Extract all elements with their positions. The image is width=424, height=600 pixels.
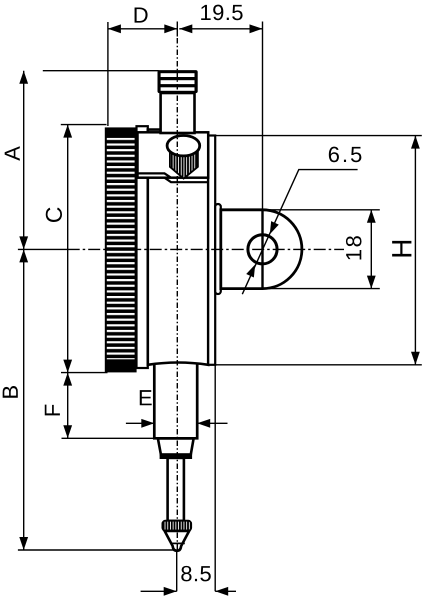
contact ball seam — [171, 542, 185, 544]
clamp collar — [138, 132, 209, 177]
dim A line — [23, 71, 25, 250]
lifting cap ridges — [158, 70, 198, 93]
dim H extension line bottom — [213, 364, 422, 366]
dim A label — [5, 146, 20, 161]
spindle — [168, 458, 184, 521]
collet flange — [161, 455, 191, 458]
case back cover — [208, 136, 215, 365]
contact point knurl ring — [162, 521, 191, 531]
vertical centerline solid tick — [176, 22, 178, 37]
dim E label — [140, 390, 152, 405]
dim F label — [45, 405, 60, 416]
dim 6.5 label — [329, 147, 362, 163]
collar seam upper-left — [138, 173, 172, 177]
dim 19.5 line — [179, 28, 262, 30]
dim 18 line — [370, 210, 372, 289]
dim 6.5 arrow lower — [246, 264, 255, 277]
dim B label — [3, 386, 18, 398]
dim E left arrow — [126, 422, 154, 424]
dim F line — [67, 373, 69, 439]
lug hole — [248, 235, 277, 264]
dim 19.5 label — [201, 5, 242, 21]
lug back plate — [215, 204, 221, 294]
step ring between bezel and case — [137, 126, 148, 368]
lower stem (thick) — [154, 364, 197, 439]
dim H extension line top — [213, 135, 422, 137]
dim H label — [392, 241, 411, 257]
dim 8.5 label — [181, 566, 211, 582]
dim 6.5 arrow upper — [270, 221, 279, 234]
dim 8.5 right arrow — [215, 590, 236, 592]
dim 18 label — [346, 236, 362, 259]
collet taper — [158, 439, 194, 455]
dim F extension line top — [61, 372, 108, 374]
dim E right arrow — [197, 422, 227, 424]
horizontal centerline solid segment — [18, 248, 68, 250]
dim D line — [108, 28, 177, 30]
dim H line — [414, 136, 416, 365]
dim D label — [135, 7, 148, 22]
clamp screw knurl cone — [170, 148, 198, 179]
dim B line — [23, 249, 25, 550]
dim 18 extension line top — [264, 209, 380, 211]
horizontal centerline — [68, 248, 344, 250]
vertical centerline — [176, 38, 178, 551]
case body — [148, 130, 208, 365]
dim 19.5 extension line — [262, 22, 264, 210]
stem tube (top) — [161, 93, 195, 133]
dim C extension line — [61, 124, 107, 126]
dim A extension line — [43, 70, 159, 72]
dim C label — [46, 207, 62, 222]
contact point cone — [165, 531, 190, 551]
dim F extension line bottom — [62, 437, 155, 439]
dim 8.5 extension line left — [176, 551, 178, 591]
dim 8.5 extension line right — [214, 365, 216, 591]
dim 8.5 left arrow — [141, 590, 177, 592]
dim B extension line — [18, 549, 176, 551]
dim C line — [67, 125, 69, 373]
bezel (knurled ring) — [105, 127, 137, 372]
mounting lug — [221, 210, 302, 289]
dim 18 extension line bottom — [264, 288, 380, 290]
lug chord line — [261, 210, 263, 289]
clamp screw dome — [167, 136, 200, 156]
dim D extension line — [107, 22, 109, 126]
collar seam lower-right — [165, 178, 209, 183]
dim 6.5 leader — [242, 170, 357, 295]
